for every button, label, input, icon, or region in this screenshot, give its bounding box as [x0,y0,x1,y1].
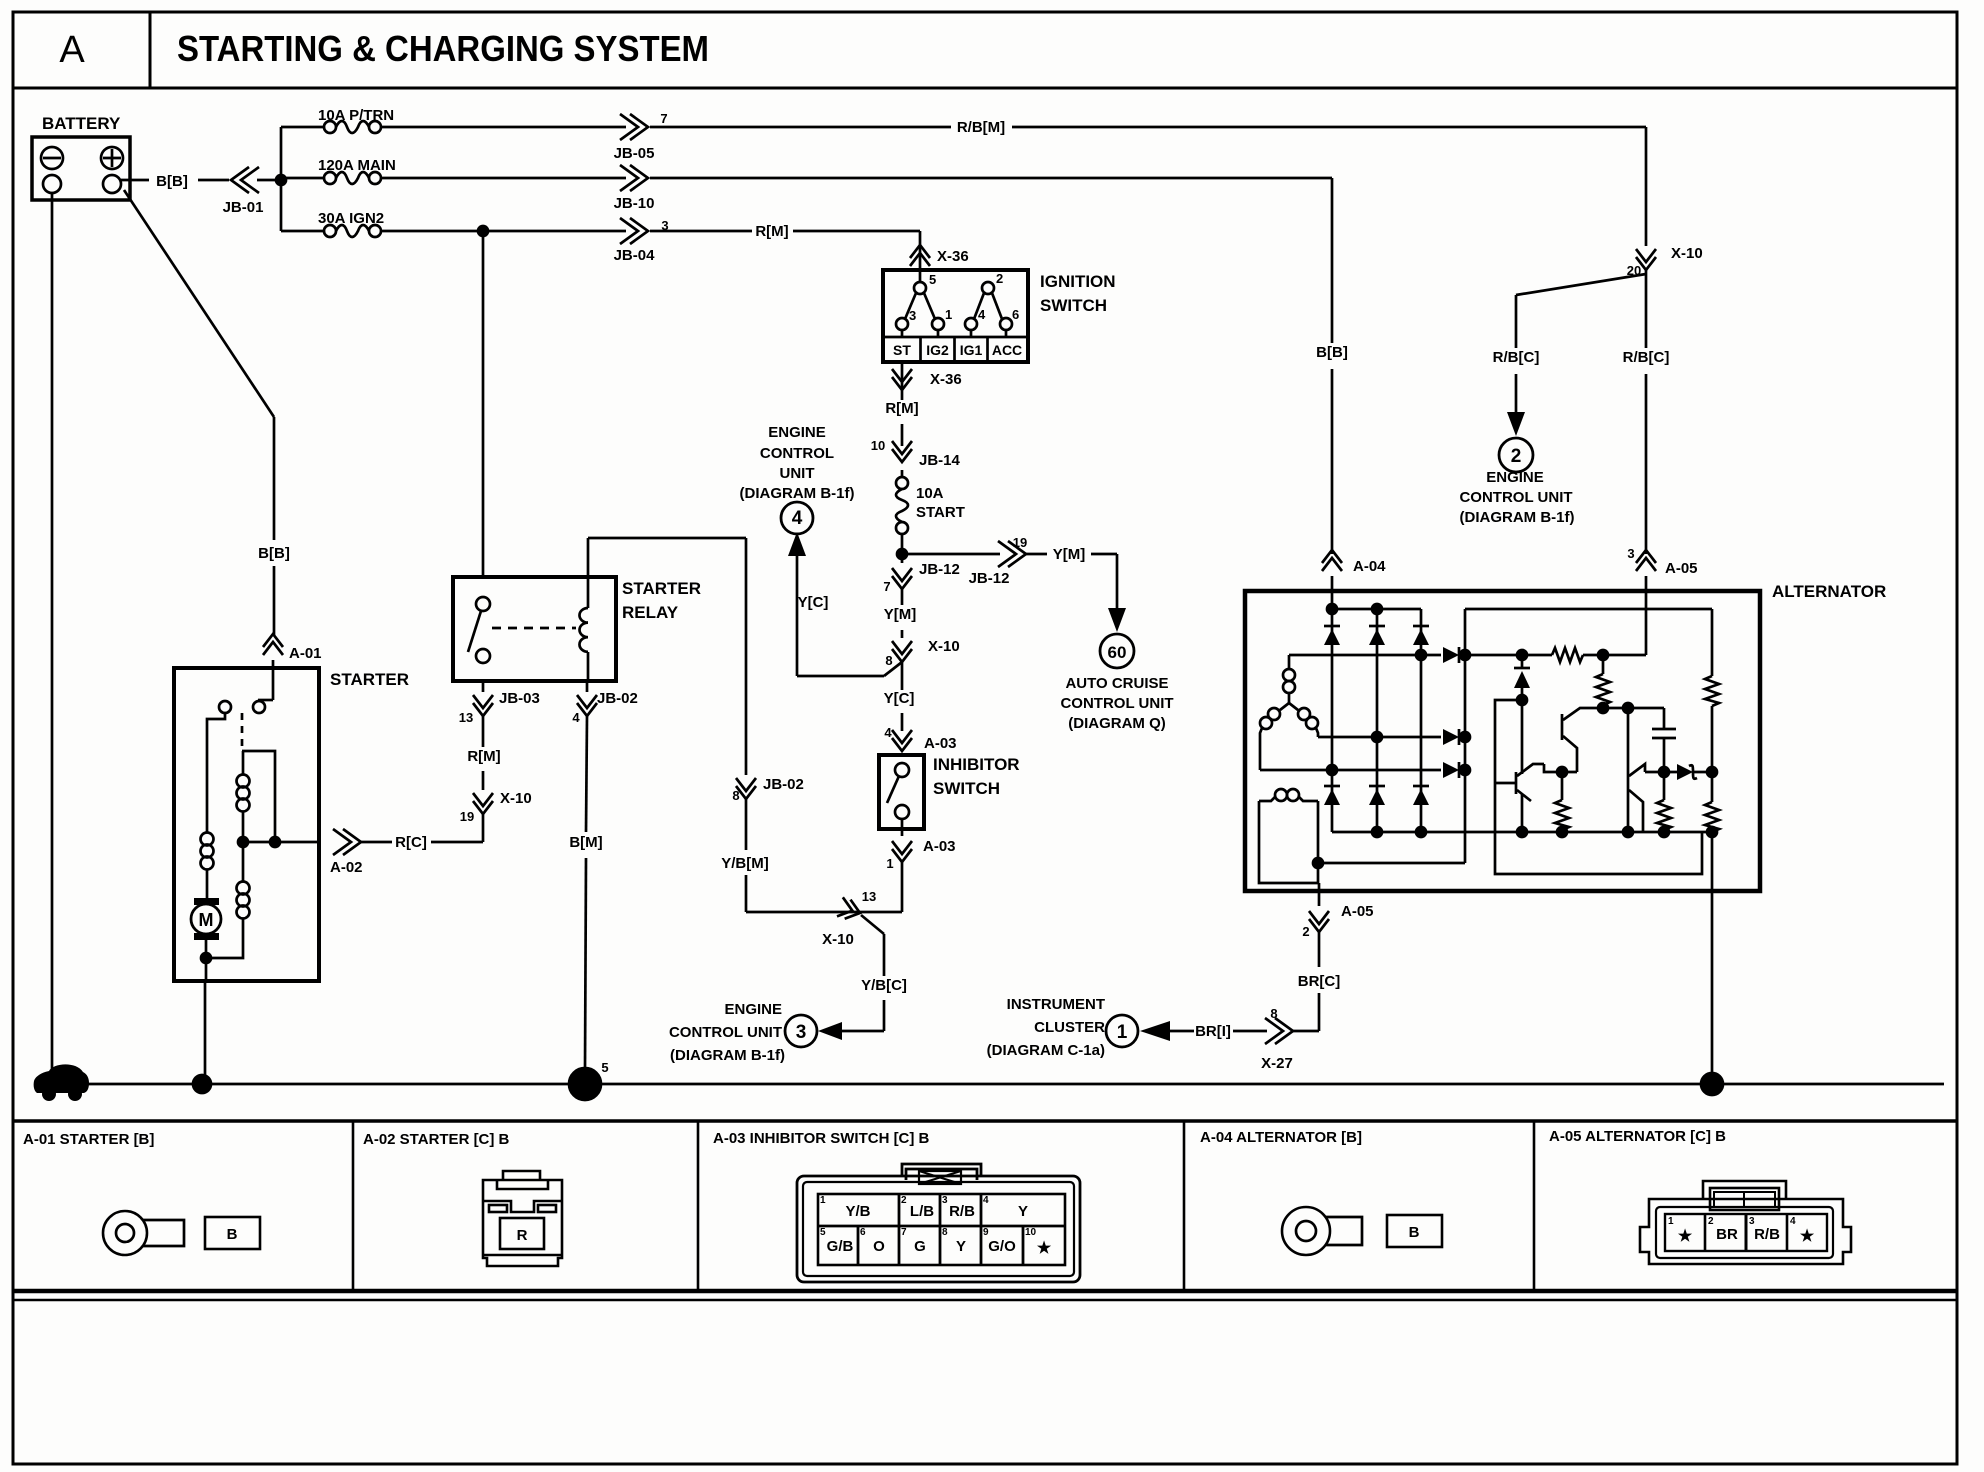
svg-text:JB-12: JB-12 [969,570,1010,587]
svg-text:A-04 ALTERNATOR [B]: A-04 ALTERNATOR [B] [1200,1129,1362,1146]
svg-text:(DIAGRAM B-1f): (DIAGRAM B-1f) [1460,509,1575,526]
svg-text:JB-12: JB-12 [919,561,960,578]
svg-text:JB-03: JB-03 [499,690,540,707]
svg-text:4: 4 [792,508,803,529]
svg-text:5: 5 [929,272,936,287]
svg-text:2: 2 [1511,446,1522,467]
svg-text:B: B [227,1226,238,1243]
svg-text:6: 6 [860,1227,866,1238]
svg-text:10: 10 [871,438,885,453]
svg-text:B: B [1409,1224,1420,1241]
svg-text:6: 6 [1012,307,1019,322]
svg-text:ACC: ACC [992,342,1022,358]
svg-text:2: 2 [996,271,1003,286]
svg-text:CLUSTER: CLUSTER [1034,1019,1105,1036]
svg-text:BR[I]: BR[I] [1195,1023,1231,1040]
svg-text:1: 1 [1117,1022,1128,1043]
svg-text:1: 1 [820,1195,826,1206]
svg-text:Y/B: Y/B [845,1203,870,1220]
svg-text:8: 8 [732,788,739,803]
svg-text:BATTERY: BATTERY [42,114,121,133]
svg-text:(DIAGRAM C-1a): (DIAGRAM C-1a) [987,1042,1105,1059]
svg-text:(DIAGRAM B-1f): (DIAGRAM B-1f) [740,485,855,502]
svg-text:A-05 ALTERNATOR [C] B: A-05 ALTERNATOR [C] B [1549,1128,1726,1145]
svg-text:ENGINE: ENGINE [724,1001,782,1018]
svg-text:120A MAIN: 120A MAIN [318,157,396,174]
svg-text:(DIAGRAM B-1f): (DIAGRAM B-1f) [670,1047,785,1064]
svg-text:3: 3 [796,1022,807,1043]
svg-text:4: 4 [1790,1216,1796,1227]
svg-text:B[B]: B[B] [156,173,188,190]
svg-text:ALTERNATOR: ALTERNATOR [1772,582,1886,601]
svg-text:Y[M]: Y[M] [1053,546,1086,563]
svg-text:Y: Y [1018,1203,1028,1220]
svg-text:5: 5 [601,1060,608,1075]
svg-text:JB-14: JB-14 [919,452,961,469]
svg-text:BR[C]: BR[C] [1298,973,1341,990]
svg-text:SWITCH: SWITCH [1040,296,1107,315]
svg-text:A-05: A-05 [1665,560,1698,577]
svg-text:X-10: X-10 [928,638,960,655]
svg-text:CONTROL UNIT: CONTROL UNIT [669,1024,782,1041]
svg-text:13: 13 [862,889,876,904]
svg-text:1: 1 [580,1075,591,1096]
svg-text:A-01: A-01 [289,645,322,662]
svg-text:3: 3 [942,1195,948,1206]
svg-text:4: 4 [884,725,892,740]
svg-text:JB-02: JB-02 [763,776,804,793]
svg-text:R[M]: R[M] [467,748,500,765]
svg-text:7: 7 [901,1227,907,1238]
svg-text:X-10: X-10 [822,931,854,948]
svg-text:X-10: X-10 [1671,245,1703,262]
svg-text:3: 3 [1627,546,1634,561]
svg-text:8: 8 [1270,1006,1277,1021]
svg-text:L/B: L/B [910,1203,934,1220]
svg-text:G: G [914,1238,926,1255]
svg-text:3: 3 [909,308,916,323]
svg-text:SWITCH: SWITCH [933,779,1000,798]
svg-text:M: M [199,910,214,930]
svg-text:13: 13 [459,710,473,725]
svg-text:RELAY: RELAY [622,603,679,622]
svg-text:AUTO CRUISE: AUTO CRUISE [1065,675,1168,692]
svg-text:A-02 STARTER [C] B: A-02 STARTER [C] B [363,1131,510,1148]
svg-text:2: 2 [901,1195,907,1206]
svg-text:JB-10: JB-10 [614,195,655,212]
svg-text:R: R [517,1227,528,1244]
svg-text:BR: BR [1716,1226,1738,1243]
svg-text:A-03: A-03 [923,838,956,855]
svg-text:IG2: IG2 [926,342,949,358]
svg-text:R/B: R/B [949,1203,975,1220]
svg-text:STARTER: STARTER [330,670,409,689]
svg-text:JB-01: JB-01 [223,199,264,216]
svg-text:7: 7 [883,579,890,594]
svg-text:2: 2 [1302,924,1309,939]
svg-text:X-36: X-36 [937,248,969,265]
svg-text:Y/B[C]: Y/B[C] [861,977,907,994]
svg-text:19: 19 [460,809,474,824]
svg-text:1: 1 [945,307,952,322]
svg-text:10A: 10A [916,485,944,502]
svg-text:ST: ST [893,342,911,358]
svg-text:X-36: X-36 [930,371,962,388]
svg-text:STARTING & CHARGING SYSTEM: STARTING & CHARGING SYSTEM [177,28,709,69]
svg-text:JB-04: JB-04 [614,247,656,264]
svg-text:A: A [59,29,85,71]
svg-text:(DIAGRAM Q): (DIAGRAM Q) [1068,715,1166,732]
svg-text:JB-05: JB-05 [614,145,655,162]
svg-text:2: 2 [1708,1216,1714,1227]
svg-text:10A P/TRN: 10A P/TRN [318,107,394,124]
svg-text:JB-02: JB-02 [597,690,638,707]
svg-text:60: 60 [1108,643,1127,662]
svg-text:IG1: IG1 [960,342,983,358]
svg-text:A-02: A-02 [330,859,363,876]
svg-text:UNIT: UNIT [780,465,815,482]
svg-text:CONTROL UNIT: CONTROL UNIT [1060,695,1173,712]
svg-text:1: 1 [886,856,893,871]
svg-text:7: 7 [660,111,667,126]
svg-text:A-01 STARTER [B]: A-01 STARTER [B] [23,1131,154,1148]
svg-text:G/O: G/O [988,1238,1016,1255]
svg-text:INSTRUMENT: INSTRUMENT [1007,996,1105,1013]
svg-text:8: 8 [942,1227,948,1238]
svg-text:B[B]: B[B] [258,545,290,562]
svg-text:4: 4 [983,1195,989,1206]
svg-text:Y/B[M]: Y/B[M] [721,855,769,872]
svg-text:R/B[M]: R/B[M] [957,119,1005,136]
svg-text:Y[C]: Y[C] [884,690,915,707]
svg-text:G/B: G/B [827,1238,854,1255]
svg-text:30A IGN2: 30A IGN2 [318,210,384,227]
svg-text:★: ★ [1800,1228,1815,1245]
svg-text:R/B[C]: R/B[C] [1623,349,1670,366]
svg-text:Y[M]: Y[M] [884,606,917,623]
svg-text:X-27: X-27 [1261,1055,1293,1072]
svg-text:5: 5 [820,1227,826,1238]
svg-text:R/B[C]: R/B[C] [1493,349,1540,366]
svg-text:1: 1 [1668,1216,1674,1227]
svg-text:R[M]: R[M] [885,400,918,417]
svg-text:4: 4 [978,307,986,322]
svg-text:3: 3 [661,218,668,233]
svg-text:★: ★ [1678,1228,1693,1245]
svg-text:ENGINE: ENGINE [1486,469,1544,486]
svg-text:STARTER: STARTER [622,579,701,598]
svg-text:A-03: A-03 [924,735,957,752]
svg-text:10: 10 [1025,1227,1037,1238]
svg-text:Y: Y [956,1238,966,1255]
svg-text:R/B: R/B [1754,1226,1780,1243]
svg-text:O: O [873,1238,885,1255]
svg-text:★: ★ [1037,1240,1052,1257]
svg-text:R[M]: R[M] [755,223,788,240]
svg-text:CONTROL UNIT: CONTROL UNIT [1459,489,1572,506]
svg-text:B[M]: B[M] [569,834,602,851]
svg-text:G: G [64,1077,76,1094]
svg-text:INHIBITOR: INHIBITOR [933,755,1020,774]
svg-text:X-10: X-10 [500,790,532,807]
svg-text:CONTROL: CONTROL [760,445,834,462]
svg-text:B[B]: B[B] [1316,344,1348,361]
svg-text:IGNITION: IGNITION [1040,272,1116,291]
svg-text:A-05: A-05 [1341,903,1374,920]
svg-text:START: START [916,504,965,521]
svg-text:9: 9 [983,1227,989,1238]
svg-text:R[C]: R[C] [395,834,427,851]
svg-text:A-04: A-04 [1353,558,1386,575]
svg-text:20: 20 [1627,263,1641,278]
svg-text:ENGINE: ENGINE [768,424,826,441]
svg-text:4: 4 [572,710,580,725]
svg-text:19: 19 [1013,535,1027,550]
svg-text:A-03 INHIBITOR SWITCH [C] B: A-03 INHIBITOR SWITCH [C] B [713,1130,930,1147]
svg-text:8: 8 [885,653,892,668]
svg-text:Y[C]: Y[C] [798,594,829,611]
